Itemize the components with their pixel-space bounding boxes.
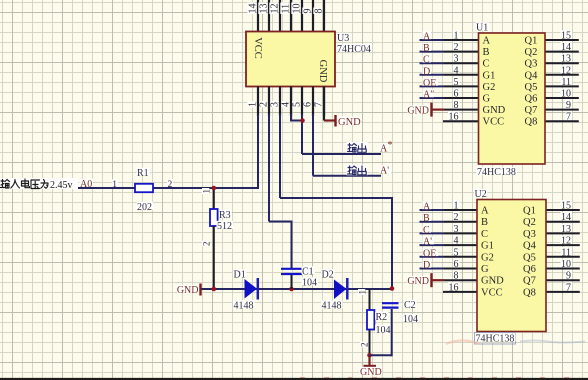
svg-text:4148: 4148 (234, 301, 254, 312)
svg-text:Q7: Q7 (525, 105, 538, 116)
svg-text:*: * (388, 140, 393, 151)
svg-text:R1: R1 (137, 168, 149, 179)
svg-text:12: 12 (561, 236, 571, 247)
svg-text:GND: GND (481, 276, 504, 287)
svg-text:A: A (423, 202, 431, 213)
svg-text:Q3: Q3 (525, 59, 538, 70)
svg-text:3: 3 (270, 102, 281, 107)
svg-text:G1: G1 (481, 241, 494, 252)
svg-text:C: C (423, 225, 430, 236)
svg-text:8: 8 (454, 271, 459, 282)
svg-text:5: 5 (292, 102, 303, 107)
svg-text:G1: G1 (483, 70, 496, 81)
svg-text:A': A' (423, 237, 432, 248)
svg-text:B: B (423, 43, 430, 54)
svg-text:6: 6 (454, 89, 459, 100)
svg-text:7: 7 (566, 112, 571, 123)
svg-text:2: 2 (360, 343, 370, 348)
svg-text:11: 11 (561, 247, 571, 258)
svg-text:4: 4 (454, 236, 459, 247)
svg-text:B: B (481, 217, 488, 228)
svg-text:GND: GND (177, 285, 199, 296)
svg-text:8: 8 (314, 9, 325, 14)
svg-text:B: B (483, 47, 490, 58)
svg-text:2: 2 (259, 102, 270, 107)
svg-text:B: B (423, 213, 430, 224)
svg-text:10: 10 (292, 4, 303, 14)
svg-text:104: 104 (376, 325, 391, 336)
svg-text:GND: GND (317, 60, 328, 83)
svg-text:9: 9 (566, 100, 571, 111)
svg-text:1: 1 (454, 31, 459, 42)
svg-text:3: 3 (454, 54, 459, 65)
svg-text:Q5: Q5 (523, 252, 536, 263)
svg-text:14: 14 (561, 42, 571, 53)
svg-text:74HC138: 74HC138 (476, 334, 515, 345)
svg-text:Q1: Q1 (523, 206, 536, 217)
svg-text:1: 1 (248, 102, 259, 107)
svg-text:A: A (481, 206, 489, 217)
svg-text:Q8: Q8 (525, 117, 538, 128)
svg-text:U1: U1 (476, 23, 488, 34)
svg-text:GND: GND (407, 106, 429, 117)
svg-text:A″: A″ (423, 90, 434, 101)
svg-text:13: 13 (259, 4, 270, 14)
svg-text:74HC138: 74HC138 (477, 167, 516, 178)
svg-text:C: C (481, 229, 488, 240)
svg-text:2.45v: 2.45v (50, 180, 73, 191)
svg-text:Q8: Q8 (523, 287, 536, 298)
svg-text:GND: GND (483, 105, 506, 116)
svg-text:GND: GND (407, 276, 429, 287)
svg-text:16: 16 (449, 282, 459, 293)
svg-text:2: 2 (454, 212, 459, 223)
svg-text:202: 202 (137, 202, 152, 213)
svg-text:R2: R2 (376, 312, 388, 323)
svg-text:4: 4 (454, 65, 459, 76)
svg-text:U3: U3 (337, 33, 349, 44)
svg-text:9: 9 (303, 9, 314, 14)
svg-text:Q2: Q2 (525, 47, 538, 58)
svg-text:9: 9 (566, 271, 571, 282)
svg-text:15: 15 (561, 201, 571, 212)
svg-text:A: A (423, 32, 431, 43)
svg-text:OE: OE (423, 248, 436, 259)
svg-text:2: 2 (168, 180, 173, 190)
svg-text:12: 12 (561, 65, 571, 76)
svg-text:Q4: Q4 (525, 70, 539, 81)
svg-text:7: 7 (314, 102, 325, 107)
svg-text:5: 5 (454, 247, 459, 258)
svg-text:8: 8 (454, 100, 459, 111)
svg-text:5: 5 (454, 77, 459, 88)
svg-text:C2: C2 (404, 300, 416, 311)
svg-text:10: 10 (561, 259, 571, 270)
svg-text:A: A (483, 36, 491, 47)
svg-text:14: 14 (248, 4, 259, 14)
svg-text:Q2: Q2 (523, 217, 536, 228)
svg-text:10: 10 (561, 89, 571, 100)
svg-text:D2: D2 (322, 270, 334, 281)
svg-text:Q6: Q6 (525, 94, 538, 105)
svg-text:1: 1 (358, 290, 368, 295)
svg-text:C: C (483, 59, 490, 70)
svg-text:104: 104 (403, 314, 418, 325)
svg-text:15: 15 (561, 31, 571, 42)
svg-text:512: 512 (217, 221, 232, 232)
svg-text:G2: G2 (481, 252, 494, 263)
svg-text:C: C (423, 55, 430, 66)
svg-text:A': A' (380, 166, 389, 177)
svg-text:1: 1 (112, 180, 117, 190)
svg-text:GND: GND (338, 117, 361, 128)
svg-text:OE: OE (423, 78, 436, 89)
svg-text:G: G (481, 264, 489, 275)
svg-text:D: D (423, 66, 430, 77)
svg-text:2: 2 (202, 242, 212, 247)
svg-text:C1: C1 (302, 267, 314, 278)
svg-text:74HC04: 74HC04 (337, 44, 371, 55)
svg-text:D1: D1 (234, 270, 246, 281)
svg-text:13: 13 (561, 224, 571, 235)
svg-text:Q5: Q5 (525, 82, 538, 93)
svg-text:13: 13 (561, 54, 571, 65)
svg-text:14: 14 (561, 212, 571, 223)
svg-text:6: 6 (454, 259, 459, 270)
svg-text:6: 6 (303, 102, 314, 107)
svg-text:Q3: Q3 (523, 229, 536, 240)
svg-text:D: D (423, 260, 430, 271)
svg-text:1: 1 (202, 189, 212, 194)
svg-text:Q1: Q1 (525, 36, 538, 47)
svg-text:VCC: VCC (481, 287, 503, 298)
svg-text:12: 12 (270, 4, 281, 14)
svg-text:7: 7 (566, 282, 571, 293)
svg-text:VCC: VCC (252, 37, 263, 59)
svg-text:4: 4 (281, 102, 292, 107)
svg-text:16: 16 (449, 112, 459, 123)
svg-text:A0: A0 (80, 179, 92, 190)
svg-text:3: 3 (454, 224, 459, 235)
svg-text:4148: 4148 (322, 301, 342, 312)
svg-text:GND: GND (360, 367, 382, 378)
svg-text:U2: U2 (475, 189, 487, 200)
svg-text:11: 11 (281, 4, 292, 14)
svg-text:Q6: Q6 (523, 264, 536, 275)
svg-text:1: 1 (454, 201, 459, 212)
svg-text:104: 104 (302, 278, 317, 289)
svg-text:G2: G2 (483, 82, 496, 93)
svg-text:11: 11 (561, 77, 571, 88)
svg-text:Q7: Q7 (523, 276, 536, 287)
svg-text:G: G (483, 94, 491, 105)
svg-text:Q4: Q4 (523, 241, 537, 252)
svg-text:R3: R3 (219, 210, 231, 221)
svg-text:2: 2 (454, 42, 459, 53)
svg-text:VCC: VCC (483, 117, 505, 128)
